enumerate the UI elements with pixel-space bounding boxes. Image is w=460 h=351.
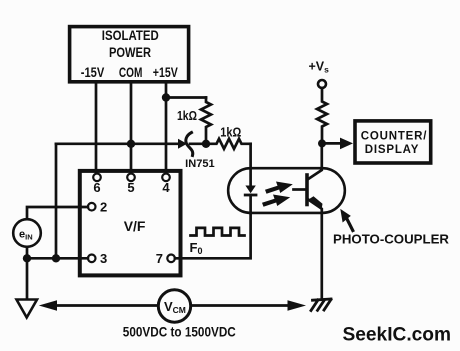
svg-text:eIN: eIN [19,229,33,242]
pin 2 circle [88,203,96,211]
phototransistor Q1 base lead [294,188,306,191]
Vcm circle [158,290,190,322]
svg-text:POWER: POWER [109,45,151,60]
wire common drop at x56 [55,144,58,258]
pin 7 circle [167,254,175,262]
svg-text:7: 7 [156,251,163,266]
svg-text:+15V: +15V [153,65,178,80]
isolated power supply box PS1 [70,27,189,82]
wire -15V rail [95,82,98,174]
ground triangle floating common [17,300,38,318]
emitter arrowhead [309,196,323,210]
svg-text:V/F: V/F [124,218,146,234]
svg-text:SeekIC.com: SeekIC.com [343,323,452,345]
svg-text:VCM: VCM [164,299,186,315]
phototransistor Q1 base bar [305,175,309,205]
svg-text:DISPLAY: DISPLAY [365,144,419,156]
resistor R1 1k vertical [201,98,211,144]
zener diode D1 IN751 anode triangle [178,139,187,149]
wire eIN top to pin2 [27,207,88,219]
pin 6 circle [93,174,101,182]
photocoupler pointer arrowhead [340,209,351,223]
supply +Vs terminal circle [318,80,326,88]
svg-text:-15V: -15V [81,65,105,80]
svg-text:5: 5 [127,180,134,195]
wire +15V rail [165,82,168,174]
node junction COM and zener net [127,140,135,148]
zener diode D1 cathode bar [186,133,193,156]
phototransistor Q1 collector [308,143,322,179]
LED D2 triangle [245,186,255,194]
node junction eIN low [23,254,31,262]
V/F converter box U1 [80,171,181,276]
svg-text:ISOLATED: ISOLATED [102,28,159,43]
square wave symbol F0 [191,228,245,236]
wire COM rail [130,82,133,174]
svg-text:3: 3 [100,251,107,266]
svg-text:+Vs: +Vs [309,60,330,75]
wire arrow to counter shaft [326,142,341,145]
ground symbol chassis [313,299,332,300]
light arrow 2 [262,195,290,207]
optocoupler U2 body stadium [228,168,345,213]
svg-text:6: 6 [93,180,100,195]
svg-text:IN751: IN751 [185,158,215,170]
node junction +15V to R1 branch [162,93,170,101]
Vcm arrow line right segment [191,304,288,307]
svg-text:COM: COM [119,65,142,80]
pin 3 circle [88,254,96,262]
counter display box U3 [355,121,431,163]
LED D2 cathode bar [245,194,256,197]
photocoupler pointer arrow shaft [345,215,353,231]
svg-text:COUNTER/: COUNTER/ [361,131,427,143]
wire LED cathode drop [249,195,252,213]
source eIN circle [13,219,41,247]
phototransistor Q1 emitter [308,199,322,299]
node junction common drop [52,254,60,262]
light arrow 1 [265,182,293,194]
node junction collector pullup [318,139,326,147]
wire pin7 to LED cathode [175,213,251,258]
wire eIN bottom to common [27,247,88,258]
wire zener common net [56,142,178,145]
Vcm left arrowhead [39,300,57,310]
svg-text:4: 4 [162,180,170,195]
wire zener cathode to node [190,142,206,145]
wire R2 to LED anode drop [249,144,252,186]
wire +15V branch to R1 [166,96,206,99]
pin 5 circle [127,174,135,182]
resistor R2 1k horizontal [206,139,251,149]
Vcm right arrowhead [288,300,307,310]
svg-text:PHOTO-COUPLER: PHOTO-COUPLER [333,232,450,247]
Vcm arrow line left segment [56,304,158,307]
pin 4 circle [162,174,170,182]
svg-text:1kΩ: 1kΩ [220,124,241,139]
svg-text:F0: F0 [190,240,203,256]
svg-text:500VDC to 1500VDC: 500VDC to 1500VDC [123,323,236,339]
svg-text:1kΩ: 1kΩ [177,108,197,123]
resistor R3 pullup [317,88,327,143]
svg-text:2: 2 [100,200,107,215]
node junction R1 R2 zener [202,140,210,148]
wire eIN low to triangle [26,258,29,299]
arrowhead into counter box [340,138,353,150]
